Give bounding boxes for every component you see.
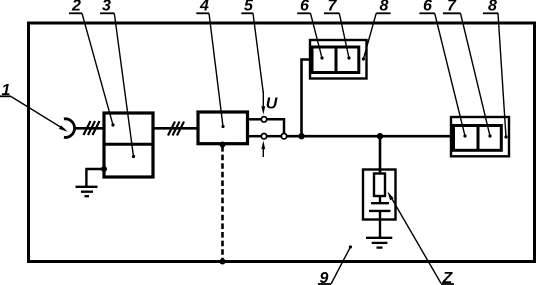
svg-text:7: 7 — [447, 0, 457, 15]
label 7 (left group) — [324, 0, 339, 15]
leader line 8 (right group) — [498, 13, 508, 138]
wire resistor to capacitor — [379, 196, 381, 203]
label 8 (left group) — [376, 0, 390, 15]
divider inner (left group) — [335, 47, 338, 73]
block 6/7/8 outer (left group) — [310, 40, 367, 79]
leader line 6 (right group) — [435, 13, 467, 137]
main bus wire — [287, 135, 451, 138]
svg-text:9: 9 — [320, 270, 329, 285]
arrow U bottom — [261, 141, 265, 157]
label Z — [441, 270, 454, 285]
wire stub bottom terminal — [248, 135, 262, 138]
svg-text:Z: Z — [442, 270, 454, 285]
source arc 1 — [64, 119, 75, 138]
resistor inside Z — [374, 174, 385, 197]
block 6/7/8 outer (right group) — [451, 117, 509, 156]
leader line 4 — [209, 13, 225, 128]
leader line 3 — [114, 13, 135, 158]
capacitor plate bottom — [369, 210, 391, 212]
label 7 (right group) — [443, 0, 461, 15]
ground 2 — [366, 238, 392, 248]
label 6 (right group) — [419, 0, 434, 15]
leader line Z (arrow) — [387, 191, 441, 283]
label 1 — [0, 82, 11, 99]
element Z box — [363, 170, 396, 220]
jumper wire from top terminal — [267, 119, 284, 133]
label 3 — [100, 0, 114, 15]
svg-text:4: 4 — [199, 0, 209, 15]
leader line 7 (right group) — [461, 13, 492, 137]
wire arc to box 2 — [75, 127, 104, 130]
wire box 2 to box 4 — [153, 127, 198, 130]
junction node Z branch — [377, 133, 383, 139]
leader line 1 (arrow) — [11, 97, 68, 132]
svg-text:2: 2 — [71, 0, 81, 15]
wire stub top terminal — [248, 118, 262, 121]
leader line 6 (left group) — [311, 13, 324, 59]
svg-text:5: 5 — [244, 0, 254, 15]
leader line 2 — [82, 13, 115, 126]
leader line 7 (left group) — [339, 13, 350, 59]
leader line 9 — [331, 245, 352, 284]
svg-text:3: 3 — [102, 0, 111, 15]
wire capacitor to ground 2 — [379, 211, 381, 238]
svg-text:6: 6 — [423, 0, 432, 15]
svg-text:7: 7 — [328, 0, 338, 15]
label 4 — [196, 0, 209, 15]
arrow U top — [261, 91, 265, 115]
junction node riser — [298, 133, 304, 139]
svg-text:8: 8 — [380, 0, 389, 15]
block 6/7/8 inner (right group) — [454, 126, 502, 151]
enclosure frame 9 — [29, 23, 535, 262]
divider inner (right group) — [477, 126, 480, 151]
node at block 4 bottom — [220, 142, 226, 148]
svg-text:6: 6 — [300, 0, 309, 15]
node at frame bottom — [220, 259, 226, 265]
leader line 8 (left group) — [362, 13, 376, 60]
label 2 — [69, 0, 82, 15]
mechanical link slashes A — [84, 121, 100, 135]
block 4 — [198, 112, 248, 144]
leader line 5 — [253, 13, 263, 93]
block 6/7/8 inner (left group) — [312, 47, 359, 73]
block 2/3 (converter box) — [104, 113, 153, 177]
label 8 (right group) — [483, 0, 498, 15]
label 9 — [318, 270, 331, 285]
svg-text:8: 8 — [488, 0, 497, 15]
terminal circle bottom — [261, 134, 266, 139]
svg-text:U: U — [266, 96, 278, 113]
capacitor plate top — [371, 202, 389, 204]
wire bottom terminal to node circle — [267, 135, 282, 138]
node at block 2 left edge — [101, 166, 107, 172]
mechanical link slashes B — [168, 122, 184, 136]
label 5 — [241, 0, 254, 15]
riser wire to block 6/7/8 left — [302, 60, 312, 137]
label 6 (left group) — [297, 0, 310, 15]
divider of block 2/3 — [104, 143, 153, 146]
terminal circle junction — [281, 134, 286, 139]
wire to ground 1 — [86, 169, 104, 187]
ground 1 — [76, 187, 98, 196]
wire down to element Z — [379, 136, 382, 173]
dashed line to frame bottom — [221, 146, 224, 262]
terminal circle top — [261, 117, 266, 122]
